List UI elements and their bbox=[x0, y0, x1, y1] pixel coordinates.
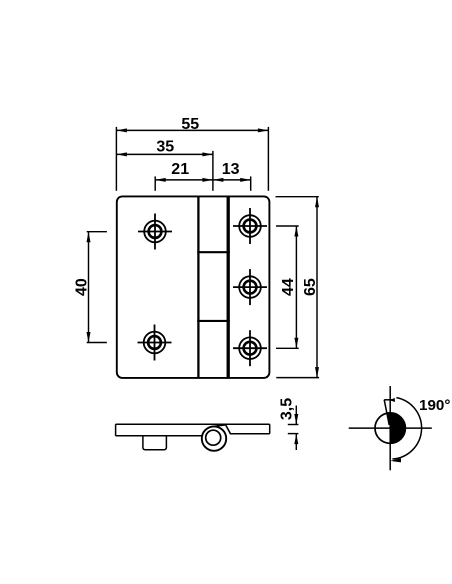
dimension 40 bbox=[74, 232, 107, 343]
dimension 3,5 bbox=[279, 398, 299, 450]
screw hole left bottom bbox=[138, 325, 172, 361]
svg-text:3,5: 3,5 bbox=[279, 398, 296, 420]
svg-text:21: 21 bbox=[171, 161, 189, 178]
knuckle left edge line bbox=[197, 196, 199, 378]
svg-text:13: 13 bbox=[222, 161, 240, 178]
knuckle divider upper bbox=[197, 251, 230, 253]
screw hole right top bbox=[233, 208, 267, 244]
svg-text:44: 44 bbox=[280, 278, 297, 296]
arc arrow bottom bbox=[390, 458, 401, 462]
svg-text:65: 65 bbox=[302, 278, 319, 296]
dimension 44 bbox=[276, 226, 299, 348]
hinge body top view bbox=[117, 196, 270, 378]
screw hole right middle bbox=[233, 269, 267, 305]
leaf cap bbox=[384, 399, 392, 401]
side view pin hole bbox=[206, 430, 221, 445]
side view left leaf bottom bbox=[116, 435, 203, 437]
side view blend and diagonal edge bbox=[215, 425, 231, 434]
detail horizontal axis bbox=[349, 427, 432, 429]
arc arrow top bbox=[390, 398, 395, 402]
side view knuckle outer bbox=[202, 426, 226, 450]
190 degree opening detail bbox=[349, 386, 451, 470]
angle arc bbox=[392, 398, 421, 459]
knuckle right thick line bbox=[227, 196, 230, 378]
side view right end bbox=[269, 424, 271, 434]
side view left end bbox=[115, 424, 117, 436]
dimension 21 bbox=[155, 161, 213, 191]
dimension 13 bbox=[213, 161, 251, 191]
screw hole left top bbox=[138, 214, 172, 250]
detail circle bbox=[375, 413, 405, 443]
svg-text:190°: 190° bbox=[419, 397, 450, 414]
side view right leaf bottom bbox=[230, 433, 270, 435]
dimension 35 bbox=[116, 138, 212, 191]
side view top edge bbox=[116, 423, 270, 425]
side view tab bbox=[143, 436, 167, 450]
dimension 65 bbox=[276, 197, 320, 378]
knuckle divider lower bbox=[197, 320, 230, 322]
detail vertical axis bbox=[389, 386, 391, 470]
screw hole right bottom bbox=[233, 330, 267, 366]
svg-text:35: 35 bbox=[156, 138, 174, 155]
dimension 55 bbox=[116, 116, 268, 191]
leaf line bbox=[384, 400, 389, 425]
svg-text:40: 40 bbox=[74, 278, 91, 296]
svg-text:55: 55 bbox=[181, 116, 199, 133]
filled 190 sector bbox=[387, 413, 405, 443]
